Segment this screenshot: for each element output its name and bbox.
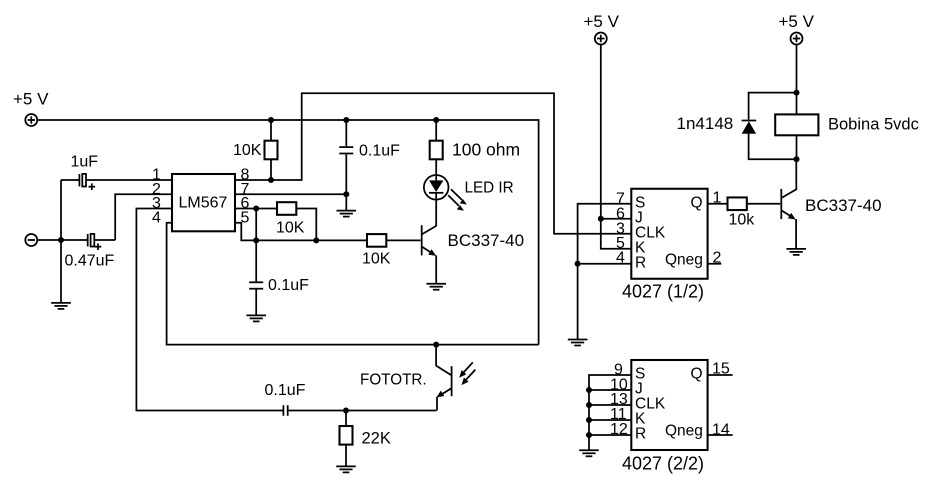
- svg-text:0.1uF: 0.1uF: [359, 143, 400, 160]
- node rail-0.1uF: [343, 117, 349, 123]
- diode D2 1n4148 (flyback): [677, 93, 797, 160]
- resistor R6 10k (Q2 base): [728, 197, 781, 228]
- wire pin 8 to clock line: [235, 93, 631, 234]
- node J2: [586, 387, 592, 393]
- svg-text:Qneg: Qneg: [665, 423, 703, 440]
- svg-text:4027 (1/2): 4027 (1/2): [622, 282, 704, 302]
- ground (S-R): [568, 264, 588, 346]
- svg-text:10K: 10K: [276, 220, 305, 237]
- svg-text:Q: Q: [691, 366, 703, 383]
- node R2: [586, 432, 592, 438]
- wire J pin: [601, 218, 632, 220]
- svg-text:BC337-40: BC337-40: [805, 196, 882, 215]
- resistor R4 10K (Q1 base): [362, 234, 421, 267]
- node R3 leg: [313, 237, 319, 243]
- wire R pin: [578, 263, 632, 265]
- wire Q2 stub: [708, 374, 733, 376]
- svg-text:R: R: [635, 254, 646, 271]
- wire Qneg2 stub: [708, 434, 733, 436]
- node S-R: [575, 261, 581, 267]
- svg-text:Qneg: Qneg: [665, 251, 703, 268]
- wire pin 3 to bottom coupling cap: [136, 209, 283, 411]
- capacitor C3 0.1uF (pin7 filter): [339, 120, 400, 194]
- resistor R5 22K: [340, 411, 391, 467]
- +5 V supply terminal (relay): [779, 12, 815, 45]
- resistor R1 10K (pull-up pin8): [233, 120, 278, 180]
- LED D1 infrared: [424, 175, 514, 226]
- transistor Q2 BC337-40 (relay driver): [781, 189, 881, 249]
- node pin8-R1: [268, 177, 274, 183]
- svg-text:4: 4: [152, 209, 161, 226]
- node diode bottom: [794, 156, 800, 162]
- wire +5V rail to phototransistor pull line: [37, 120, 538, 345]
- svg-text:1n4148: 1n4148: [677, 114, 734, 133]
- ground (Q1 emitter): [426, 284, 446, 290]
- node J: [598, 216, 604, 222]
- node K2: [586, 417, 592, 423]
- node rail-10K: [268, 117, 274, 123]
- wire input: [37, 239, 87, 241]
- wire pin 7: [235, 193, 346, 195]
- svg-text:BC337-40: BC337-40: [448, 231, 525, 250]
- wire Q output: [708, 203, 728, 205]
- transistor Q1 BC337-40 (LED driver): [422, 225, 524, 284]
- IC U1 LM567: [172, 174, 235, 231]
- wire C1 to input node: [60, 180, 62, 240]
- svg-text:0.1uF: 0.1uF: [265, 382, 306, 399]
- svg-text:Bobina 5vdc: Bobina 5vdc: [828, 116, 919, 134]
- wire J2: [589, 389, 631, 391]
- node CLK2: [586, 402, 592, 408]
- wire unused inputs tied: [589, 375, 631, 435]
- capacitor C5 0.1uF (output coupling): [265, 382, 437, 416]
- ground (pin7): [337, 194, 357, 216]
- wire CLK2: [589, 404, 631, 406]
- resistor R2 100 ohm (LED): [430, 120, 520, 180]
- svg-text:+5 V: +5 V: [13, 90, 49, 109]
- IC U3 4027 (2/2): [622, 360, 708, 474]
- node phototransistor collector: [433, 342, 439, 348]
- node input: [58, 237, 64, 243]
- wire +5V to J and K: [601, 45, 632, 249]
- svg-text:0.47uF: 0.47uF: [65, 253, 115, 270]
- svg-text:LM567: LM567: [179, 195, 228, 212]
- svg-text:4027 (2/2): 4027 (2/2): [622, 454, 704, 474]
- wire S pin: [578, 204, 632, 264]
- node rail-100ohm: [433, 117, 439, 123]
- svg-text:10k: 10k: [729, 212, 756, 229]
- phototransistor Q3 FOTOTR.: [360, 345, 452, 411]
- svg-text:4: 4: [616, 250, 625, 267]
- svg-text:+5 V: +5 V: [779, 12, 815, 31]
- svg-text:1uF: 1uF: [71, 154, 99, 171]
- ground (Q2 emitter): [786, 249, 806, 255]
- svg-text:Q: Q: [691, 194, 703, 211]
- relay K1 Bobina 5vdc: [775, 114, 919, 159]
- resistor R3 10K (loop filter): [276, 202, 305, 236]
- wire R3 right leg: [296, 209, 316, 241]
- capacitor C2 0.47uF (polarized): [65, 234, 116, 270]
- capacitor C4 0.1uF (timing): [249, 240, 309, 315]
- IC U2 4027 (1/2): [622, 189, 708, 302]
- LED emission arrows: [448, 189, 467, 210]
- svg-text:FOTOTR.: FOTOTR.: [360, 372, 427, 389]
- svg-text:R: R: [635, 426, 646, 443]
- svg-text:100 ohm: 100 ohm: [452, 140, 520, 160]
- capacitor C1 1uF (input coupling, polarized): [61, 154, 172, 191]
- wire pin 4 to +5 line: [167, 223, 539, 345]
- svg-text:22K: 22K: [362, 430, 391, 448]
- +5 V supply terminal (4027 J/K): [584, 12, 620, 45]
- node diode top: [794, 90, 800, 96]
- wire K2: [589, 419, 631, 421]
- ground (22K): [336, 466, 356, 472]
- wire pin 6: [235, 208, 277, 210]
- ground (timing cap): [246, 315, 266, 321]
- phototransistor light arrows: [459, 362, 475, 385]
- wire relay to Q2 collector: [795, 159, 797, 190]
- node 22K: [343, 408, 349, 414]
- svg-text:LED IR: LED IR: [465, 180, 514, 197]
- node pin7-cap: [343, 191, 349, 197]
- wire +5V to relay: [796, 45, 798, 115]
- wire C2 to pin 2: [115, 194, 172, 240]
- svg-text:10K: 10K: [233, 142, 262, 159]
- svg-text:0.1uF: 0.1uF: [268, 277, 309, 294]
- svg-text:+5 V: +5 V: [584, 12, 620, 31]
- svg-text:10K: 10K: [362, 251, 391, 268]
- +5 V supply terminal (left): [13, 90, 49, 127]
- ground (4027-2 inputs): [579, 435, 599, 456]
- ground (input): [51, 240, 71, 309]
- node timing cap: [253, 237, 259, 243]
- wire pin 5 to base resistor: [235, 223, 367, 241]
- wire pin6 node down: [255, 209, 257, 241]
- wire Qneg stub: [708, 263, 722, 265]
- input terminal (minus): [25, 234, 37, 246]
- node pin6: [253, 206, 259, 212]
